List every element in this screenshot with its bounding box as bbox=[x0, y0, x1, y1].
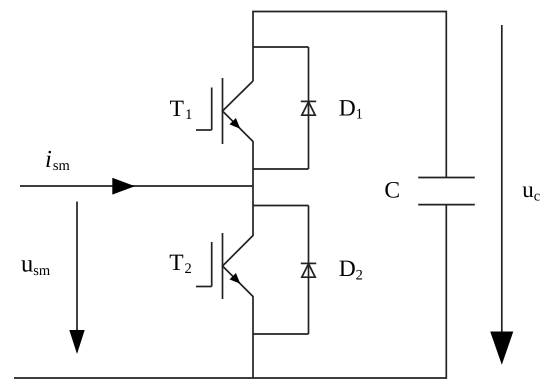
wire branch horizontal at node mid-top bbox=[253, 168, 309, 170]
svg-text:ism: ism bbox=[45, 146, 70, 174]
u_c arrow line bbox=[501, 25, 503, 332]
svg-text:T2: T2 bbox=[169, 250, 192, 277]
transistor Q2 body (IGBT T2) bbox=[196, 233, 223, 299]
diode D1 symbol bbox=[301, 101, 316, 115]
diode D2 branch wire bbox=[308, 206, 310, 335]
arrowhead u_c bbox=[490, 332, 513, 365]
wire branch horizontal bottom bbox=[253, 333, 309, 335]
capacitor C plates bbox=[418, 178, 475, 205]
wire input i_sm bbox=[20, 185, 253, 187]
arrowhead u_sm bbox=[69, 330, 84, 354]
svg-text:C: C bbox=[384, 177, 400, 203]
svg-text:D1: D1 bbox=[339, 95, 363, 122]
diode D1 branch wire bbox=[308, 47, 310, 169]
wire bottom bus and capacitor lower lead bbox=[14, 205, 446, 378]
diode D2 symbol bbox=[301, 263, 316, 277]
svg-text:usm: usm bbox=[21, 251, 51, 280]
svg-text:uc: uc bbox=[522, 177, 540, 205]
arrowhead on i_sm wire bbox=[112, 178, 135, 195]
wire top branch horizontal bbox=[253, 46, 309, 48]
svg-text:D2: D2 bbox=[339, 256, 363, 284]
u_sm arrow line bbox=[76, 202, 78, 332]
transistor Q1 body (IGBT T1) bbox=[196, 78, 223, 144]
svg-text:T1: T1 bbox=[170, 96, 193, 123]
arrowhead T1 emitter bbox=[230, 118, 241, 129]
wire branch horizontal at node mid-bottom bbox=[253, 205, 309, 207]
wire main stack: T1 diagonals down through T2 to bottom bus bbox=[223, 81, 254, 378]
arrowhead T2 emitter bbox=[230, 273, 241, 284]
wire top bus and capacitor upper lead bbox=[253, 12, 446, 178]
